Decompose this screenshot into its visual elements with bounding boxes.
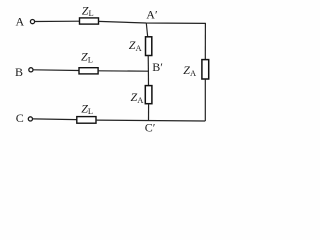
- svg-text:A: A: [16, 14, 25, 28]
- resistor ZL (phase B): [79, 68, 98, 74]
- impedance ZA (A'-C' right branch): [202, 60, 209, 79]
- wire A terminal to ZL: [35, 20, 80, 22]
- svg-text:B: B: [15, 65, 23, 79]
- terminal B: [29, 68, 33, 72]
- impedance ZA (A'-B'): [146, 37, 152, 56]
- resistor ZL (phase A): [80, 18, 99, 24]
- wire A' down to ZA1: [146, 23, 147, 37]
- resistor ZL (phase C): [77, 117, 96, 124]
- wire ZA1 to B': [147, 55, 149, 71]
- wire ZA2 to C': [148, 104, 150, 121]
- wire B terminal to ZL: [33, 69, 79, 72]
- svg-text:C′: C′: [145, 121, 156, 135]
- impedance ZA (B'-C'): [145, 86, 152, 104]
- wire ZL-C along bottom to bottom-right corner: [96, 119, 205, 122]
- svg-text:A′: A′: [146, 8, 158, 22]
- svg-text:B′: B′: [152, 60, 163, 74]
- wire ZL-B to B': [98, 70, 148, 72]
- svg-text:C: C: [16, 111, 24, 125]
- wire B' down to ZA2: [147, 71, 149, 86]
- wire C terminal to ZL: [33, 118, 77, 121]
- wire ZL-A to top-right corner: [99, 21, 206, 23]
- terminal C: [28, 117, 32, 121]
- wire top-right corner down to ZA3: [204, 23, 206, 60]
- terminal A: [30, 20, 34, 24]
- wire ZA3 to bottom-right corner: [204, 79, 206, 121]
